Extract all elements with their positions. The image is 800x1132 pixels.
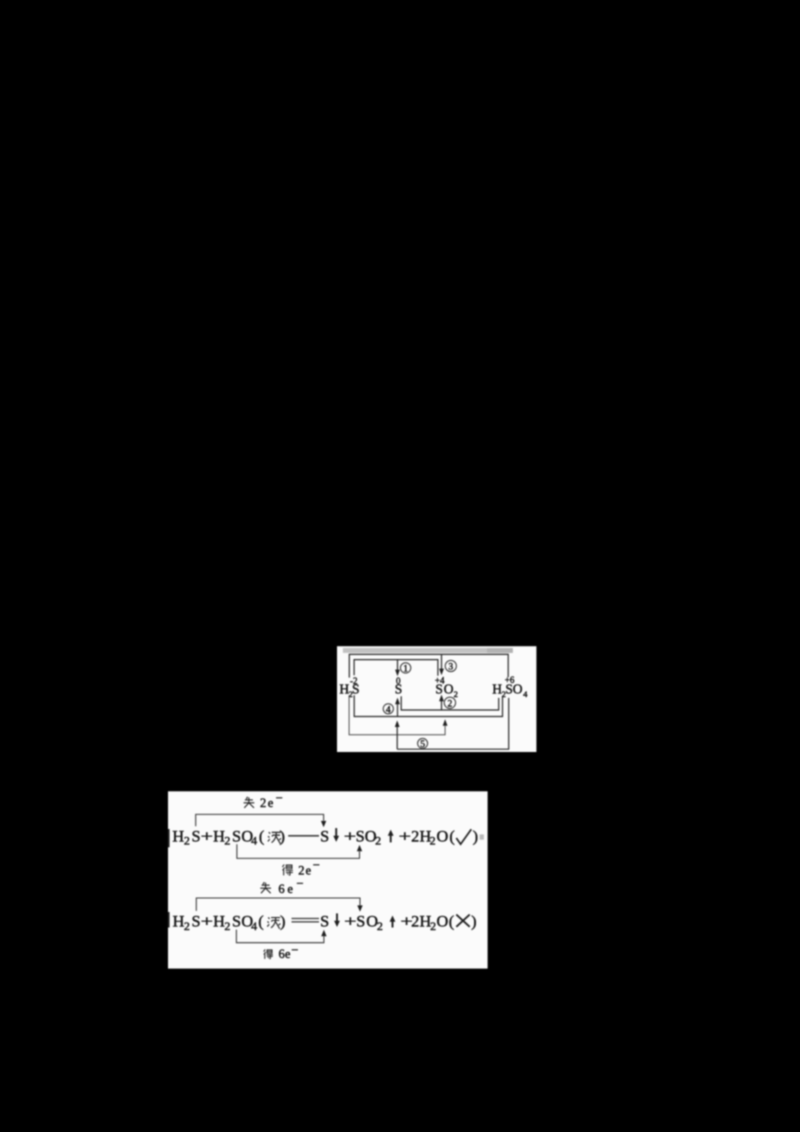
eq1 check mark in parens xyxy=(449,826,478,845)
arrow 4 up to S xyxy=(395,698,400,717)
left edge tick row1 xyxy=(168,829,170,847)
inner top bracket H2S to SO2 xyxy=(354,660,438,676)
svg-text:(: ( xyxy=(449,912,454,931)
svg-text:6: 6 xyxy=(278,882,284,896)
left edge tick row2 xyxy=(168,912,170,928)
svg-text:2: 2 xyxy=(375,834,381,848)
svg-text:e: e xyxy=(285,947,291,961)
eq2 SO2 xyxy=(356,912,383,933)
right gray artifact row1 xyxy=(480,834,484,839)
eq1 up arrow xyxy=(388,830,394,843)
svg-text:2: 2 xyxy=(184,919,190,933)
svg-text:+: + xyxy=(201,912,213,931)
svg-text:3: 3 xyxy=(448,663,453,673)
label circle 5 xyxy=(418,738,428,750)
gray scan bar xyxy=(343,648,513,653)
svg-text:O: O xyxy=(437,826,449,845)
eq1 nong glyph xyxy=(268,832,281,843)
svg-text:H: H xyxy=(213,826,225,845)
eq2 2H2O xyxy=(411,912,448,933)
svg-text:S: S xyxy=(232,912,241,931)
svg-text:4: 4 xyxy=(251,834,257,848)
svg-text:2: 2 xyxy=(430,834,436,848)
svg-text:2: 2 xyxy=(430,919,436,933)
arrow 1 down to S xyxy=(395,660,400,677)
eq2 cross mark in parens xyxy=(449,912,477,931)
svg-text:S: S xyxy=(356,912,365,931)
svg-text:): ) xyxy=(473,826,478,845)
svg-text:2: 2 xyxy=(224,919,230,933)
svg-text:2: 2 xyxy=(454,689,458,699)
svg-text:0: 0 xyxy=(396,676,401,686)
svg-text:S: S xyxy=(320,826,329,845)
eq2 down arrow xyxy=(334,913,340,927)
svg-text:S: S xyxy=(320,912,329,931)
svg-text:H: H xyxy=(213,912,225,931)
species H2SO4 xyxy=(492,682,528,700)
eq1 long dash xyxy=(288,835,319,837)
label circle 4 xyxy=(383,704,393,716)
svg-text:2: 2 xyxy=(411,912,419,931)
svg-text:−: − xyxy=(296,876,303,890)
svg-text:(: ( xyxy=(449,826,454,845)
svg-text:O: O xyxy=(437,912,449,931)
eq1 2H2O xyxy=(411,826,448,847)
svg-text:S: S xyxy=(192,826,201,845)
svg-text:2: 2 xyxy=(260,796,266,810)
eq1 label gain 2e- xyxy=(282,858,319,877)
svg-text:6: 6 xyxy=(279,947,285,961)
svg-text:): ) xyxy=(280,912,285,931)
svg-text:): ) xyxy=(471,912,476,931)
eq2 bottom bracket gain 6e xyxy=(236,930,326,943)
svg-text:+: + xyxy=(344,912,356,931)
svg-text:5: 5 xyxy=(420,740,425,750)
svg-text:): ) xyxy=(279,826,284,845)
svg-text:H: H xyxy=(173,912,185,931)
eq1 H2S xyxy=(172,826,200,847)
svg-text:H: H xyxy=(172,826,184,845)
svg-text:1: 1 xyxy=(403,664,408,674)
svg-text:e: e xyxy=(306,864,312,878)
bracket D arrow 5 : H2SO4 to S bottom xyxy=(395,698,509,749)
eq1 H2SO4 xyxy=(213,826,257,847)
eq1 bottom bracket gain 2e xyxy=(237,844,362,858)
svg-text:+: + xyxy=(201,826,213,845)
species SO2 xyxy=(435,682,458,700)
species H2S xyxy=(339,682,359,700)
svg-text:(: ( xyxy=(259,826,264,845)
white panel 1 : oxidation-state conversion diagram xyxy=(337,646,536,752)
arrow 3 down to SO2 xyxy=(439,654,444,675)
svg-text:+4: +4 xyxy=(435,675,445,685)
eq2 up arrow xyxy=(390,916,396,928)
label circle 3 xyxy=(445,660,456,672)
arrow 2 up to SO2 xyxy=(439,695,444,710)
svg-text:e: e xyxy=(268,796,274,810)
eq2 label gain 6e- xyxy=(264,943,299,961)
svg-text:2: 2 xyxy=(377,919,383,933)
bracket 2 : S and H2SO4 to SO2 xyxy=(401,696,499,710)
svg-text:+: + xyxy=(399,826,411,845)
svg-text:O: O xyxy=(444,682,454,697)
white panel 2 : electron transfer equations xyxy=(168,791,488,968)
eq2 nong glyph xyxy=(267,917,280,928)
eq1 label lose 2e- xyxy=(244,791,283,810)
svg-text:2: 2 xyxy=(411,826,419,845)
svg-text:+: + xyxy=(344,826,356,845)
svg-text:4: 4 xyxy=(251,919,257,933)
svg-text:2: 2 xyxy=(184,834,190,848)
eq1 top bracket lose 2e xyxy=(196,814,327,827)
svg-text:2: 2 xyxy=(224,834,230,848)
svg-text:−: − xyxy=(291,943,298,957)
svg-text:S: S xyxy=(192,912,201,931)
svg-text:4: 4 xyxy=(386,705,391,715)
svg-text:−: − xyxy=(313,858,320,872)
svg-text:-2: -2 xyxy=(350,676,358,686)
svg-text:+6: +6 xyxy=(505,675,515,685)
svg-text:S: S xyxy=(232,826,241,845)
bracket B : H2S and H2SO4 to S xyxy=(354,695,502,716)
svg-text:(: ( xyxy=(258,912,263,931)
eq1 down arrow xyxy=(333,828,339,842)
label circle 2 xyxy=(444,697,455,709)
outer top bracket H2S to H2SO4 xyxy=(349,654,508,677)
svg-text:−: − xyxy=(276,791,283,805)
eq2 label lose 6e- xyxy=(260,876,303,896)
label circle 1 xyxy=(400,663,410,675)
eq2 top bracket lose 6e xyxy=(196,898,362,912)
svg-text:S: S xyxy=(356,826,365,845)
svg-text:2: 2 xyxy=(448,699,453,709)
eq2 H2SO4 xyxy=(213,912,257,933)
eq1 SO2 xyxy=(356,826,381,847)
bracket C : H2S to SO2 lower xyxy=(349,695,447,735)
eq2 double line xyxy=(292,919,320,922)
svg-text:4: 4 xyxy=(523,689,528,699)
eq2 H2S xyxy=(173,912,201,933)
svg-text:e: e xyxy=(287,882,293,896)
